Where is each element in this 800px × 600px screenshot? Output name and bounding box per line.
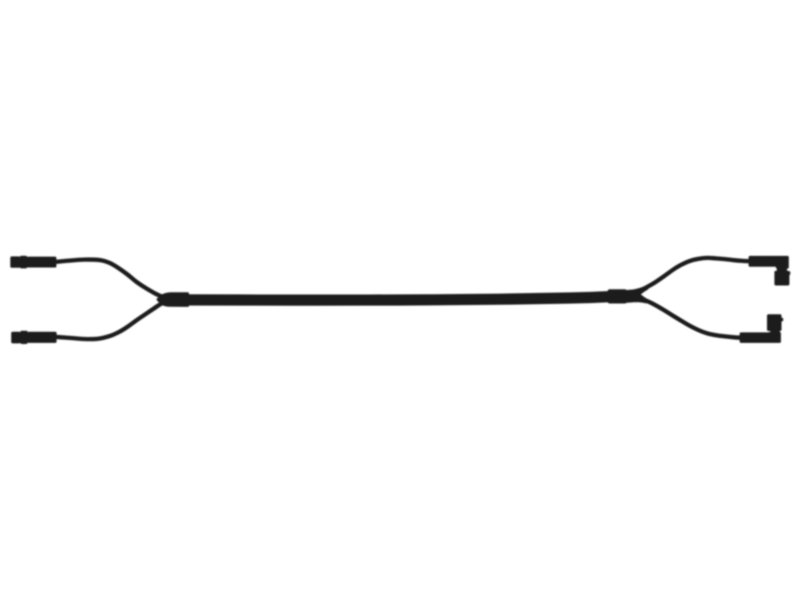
- wire W4 (right bottom lead from splice to elbow plug P4): [636, 297, 744, 338]
- P1 barrel body: [27, 257, 57, 268]
- P4 socket head (points up): [767, 314, 782, 331]
- P4 side tab: [779, 318, 783, 322]
- P3 elbow block: [776, 256, 789, 269]
- P3 side tab: [785, 271, 790, 275]
- P4 barrel body: [740, 332, 771, 343]
- P3 socket head (points down): [774, 271, 789, 286]
- connector P1 (left top straight M8 plug): [10, 256, 56, 269]
- right splice sleeve (heat-shrink boot over Y-junction): [608, 289, 628, 303]
- P3 neck: [777, 266, 787, 272]
- connector P2 (left bottom straight M8 plug): [11, 331, 56, 344]
- P2 knurled tip nut: [11, 332, 21, 344]
- connector P3 (right top right-angle elbow plug): [749, 256, 791, 286]
- left splice sleeve (heat-shrink boot over Y-junction): [156, 292, 189, 307]
- wire W3 (right top lead from splice to elbow plug P3): [636, 258, 752, 293]
- P2 lock ring: [20, 331, 27, 344]
- P1 knurled tip nut: [10, 256, 20, 267]
- P1 lock ring: [20, 256, 27, 269]
- right Y-junction taper (cable end splitting into leads): [626, 286, 648, 304]
- connector P4 (right bottom right-angle elbow plug): [740, 314, 784, 343]
- P4 neck: [770, 330, 780, 335]
- wire W1 (left top lead from plug P1 to splice): [56, 260, 172, 300]
- P4 elbow block: [768, 332, 781, 343]
- main trunk cable: [160, 295, 632, 300]
- wire W2 (left bottom lead from plug P2 to splice): [56, 300, 172, 339]
- P3 barrel body: [749, 256, 778, 267]
- P2 barrel body: [27, 332, 56, 343]
